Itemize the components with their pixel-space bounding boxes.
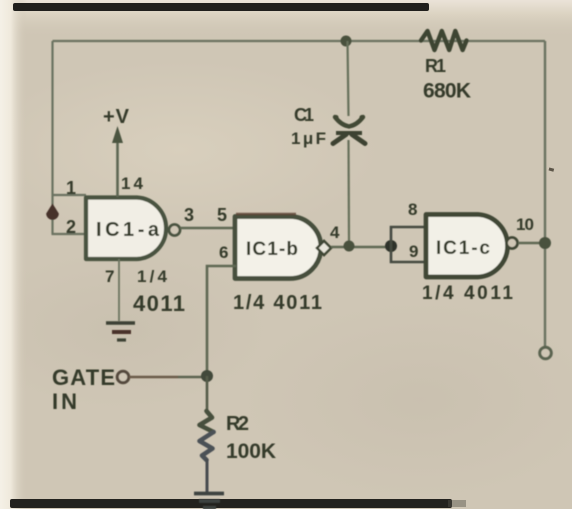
wire: left vertical bbox=[51, 41, 53, 234]
terminal: gate in open circle bbox=[117, 371, 129, 383]
wire: R2 to ground bbox=[206, 459, 209, 492]
resistor R1 bbox=[421, 31, 467, 50]
wire: gate in to junction bbox=[129, 376, 178, 379]
svg-text:IN: IN bbox=[52, 389, 77, 414]
svg-text:IC1-a: IC1-a bbox=[96, 219, 160, 241]
output bubble IC1-a pin 3 bbox=[169, 225, 180, 236]
svg-text:C1: C1 bbox=[294, 105, 314, 125]
capacitor C1 top plate bbox=[333, 115, 364, 127]
svg-text:8: 8 bbox=[408, 200, 417, 219]
resistor R2 bbox=[200, 411, 214, 460]
output bubble IC1-b pin 4 (diamond) bbox=[317, 241, 331, 255]
capacitor C1 bottom plate bbox=[333, 133, 365, 144]
svg-text:+V: +V bbox=[103, 106, 130, 128]
svg-text:9: 9 bbox=[409, 242, 418, 261]
svg-text:5: 5 bbox=[217, 205, 227, 225]
svg-text:6: 6 bbox=[219, 243, 228, 262]
power +V arrow bbox=[112, 126, 123, 197]
svg-text:4: 4 bbox=[330, 223, 340, 242]
NAND gate IC1-b body bbox=[235, 217, 321, 279]
svg-text:1: 1 bbox=[66, 178, 76, 198]
wire: pin 6 stub and down to gate-in node bbox=[207, 266, 236, 372]
node: junction top rail to C1 bbox=[341, 36, 352, 47]
svg-text:3: 3 bbox=[184, 205, 194, 225]
wire: junction down to R2 bbox=[206, 376, 209, 414]
node: gate-in junction bbox=[201, 370, 213, 382]
svg-text:1/4 4011: 1/4 4011 bbox=[233, 292, 322, 314]
node: input junction teardrop on left rail bbox=[46, 204, 59, 220]
node: junction at IC1-c bracket bbox=[385, 240, 397, 252]
svg-text:R2: R2 bbox=[226, 413, 249, 435]
brown misprint top edge IC1-b bbox=[236, 213, 296, 215]
ground symbol (bottom) bbox=[194, 494, 224, 508]
svg-text:2: 2 bbox=[66, 217, 76, 237]
wire: top rail bbox=[53, 40, 546, 42]
wire: C1 top lead bbox=[348, 41, 349, 116]
wire: pin 1 stub bbox=[53, 194, 87, 196]
wire: C1 bottom lead bbox=[347, 140, 350, 242]
svg-text:100K: 100K bbox=[226, 440, 276, 463]
wire: IC1-a output to IC1-b input bbox=[180, 227, 236, 230]
wire: pin 2 stub bbox=[52, 233, 87, 235]
svg-text:IC1-c: IC1-c bbox=[436, 238, 490, 259]
wire: pin 7 to ground bbox=[118, 259, 120, 321]
terminal: output open circle bbox=[540, 347, 552, 359]
NAND gate IC1-a body bbox=[86, 198, 166, 260]
wire: IC1-c input bracket bbox=[391, 227, 427, 263]
ground symbol (IC1-a pin 7) bbox=[106, 323, 135, 340]
svg-text:IC1-b: IC1-b bbox=[246, 239, 298, 260]
NAND gate IC1-c body bbox=[426, 215, 508, 278]
output bubble IC1-c pin 10 bbox=[507, 238, 518, 249]
node: junction C1 net bbox=[344, 241, 355, 252]
svg-text:7: 7 bbox=[105, 267, 114, 286]
wire: IC1-c output to right rail bbox=[518, 242, 545, 245]
svg-text:1/4: 1/4 bbox=[137, 267, 168, 286]
svg-text:R1: R1 bbox=[425, 56, 446, 76]
svg-text:10: 10 bbox=[516, 215, 534, 234]
svg-text:680K: 680K bbox=[423, 80, 471, 103]
svg-text:1μF: 1μF bbox=[291, 129, 326, 148]
wire: right vertical bbox=[544, 41, 546, 346]
svg-text:1/4 4011: 1/4 4011 bbox=[422, 283, 513, 304]
svg-text:GATE: GATE bbox=[52, 365, 115, 390]
node: junction output to right rail bbox=[539, 237, 551, 249]
wire: IC1-b output to IC1-c inputs bbox=[331, 246, 389, 249]
